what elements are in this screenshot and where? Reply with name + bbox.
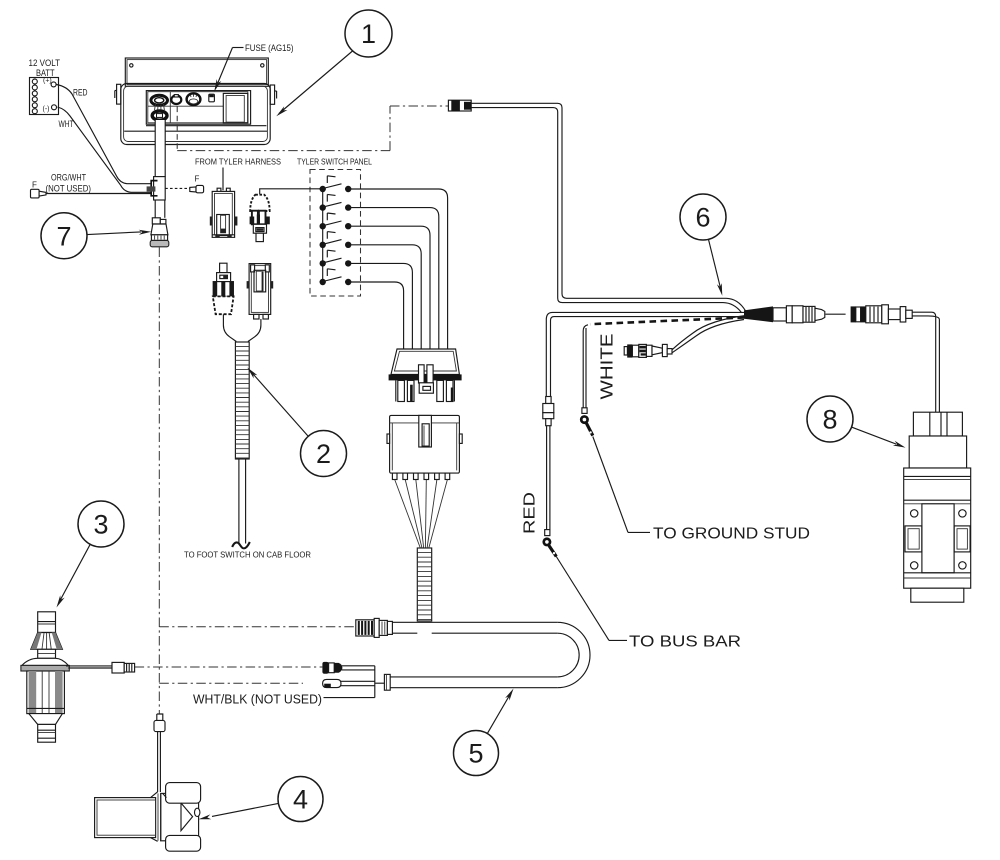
svg-text:8: 8 xyxy=(822,405,837,435)
label TO GROUND STUD with leader xyxy=(593,437,810,543)
wire RED battery positive xyxy=(57,85,153,184)
label FUSE (AG15) with leader xyxy=(214,43,293,92)
callout 1 xyxy=(276,10,392,116)
U cable bottom run xyxy=(390,677,557,688)
svg-text:F: F xyxy=(32,181,37,190)
svg-text:RED: RED xyxy=(73,88,88,98)
callout 8 xyxy=(807,396,906,448)
svg-text:2: 2 xyxy=(316,439,331,469)
valve solenoid assembly (item 8) xyxy=(904,412,971,602)
centerline vertical xyxy=(158,248,160,714)
antenna assembly xyxy=(21,612,69,742)
switch 2 xyxy=(320,194,352,210)
wire from switch 1 to connector xyxy=(348,189,447,350)
tractor drop cable xyxy=(158,732,161,792)
switch 1 xyxy=(320,176,352,192)
wires from connectors C and D to foot switch cable xyxy=(223,314,261,341)
wire from switch 5 to connector xyxy=(348,263,412,349)
console round connector 3 xyxy=(187,93,201,105)
svg-text:4: 4 xyxy=(293,785,308,815)
fuse AG15 on console xyxy=(209,94,215,102)
svg-text:TO GROUND STUD: TO GROUND STUD xyxy=(653,526,810,543)
pigtail wire and connector xyxy=(624,316,746,358)
stack female connector housing xyxy=(387,415,462,473)
callout 4 xyxy=(199,777,324,822)
svg-text:FUSE (AG15): FUSE (AG15) xyxy=(245,43,294,53)
svg-text:(+): (+) xyxy=(43,78,52,85)
trunk cable junction to connector 7 xyxy=(155,200,165,218)
wire from switch 4 to connector xyxy=(348,245,421,350)
label WHT/BLK (NOT USED) with leader xyxy=(193,692,375,707)
connector 7 (round harness connector) xyxy=(150,218,169,247)
switch 6 xyxy=(320,269,352,285)
svg-text:1: 1 xyxy=(361,19,376,49)
junction block on trunk xyxy=(147,177,166,200)
svg-text:3: 3 xyxy=(93,510,108,540)
stack male connector housing xyxy=(389,349,462,380)
wire female connector to valve xyxy=(912,312,939,412)
console back plate xyxy=(125,58,268,86)
wire from harness connector to switch rail xyxy=(260,189,323,195)
svg-text:WHITE: WHITE xyxy=(597,334,617,400)
ribbed cable below stack xyxy=(417,548,431,621)
WHITE eyelet to ground stud xyxy=(580,408,593,436)
svg-text:(-): (-) xyxy=(43,106,50,113)
wire from switch 3 to connector xyxy=(348,226,430,349)
harness convergence bundle xyxy=(744,306,773,322)
svg-text:TO BUS BAR: TO BUS BAR xyxy=(629,634,741,651)
svg-text:7: 7 xyxy=(56,222,71,252)
switch 4 xyxy=(320,232,352,248)
callout 7 xyxy=(41,213,151,259)
callout 2 xyxy=(247,368,346,477)
console main connector with cable xyxy=(151,95,168,120)
wire from remote connector to right harness xyxy=(471,103,745,312)
tractor (top view) xyxy=(95,783,201,852)
switch rail left xyxy=(322,189,324,282)
centerline to WHT/BLK connector xyxy=(159,682,303,684)
inline connector top right (black) xyxy=(448,100,471,111)
switch 3 xyxy=(320,213,352,229)
svg-text:RED: RED xyxy=(522,492,539,534)
wire RED to bus bar xyxy=(543,312,744,529)
U cable top run xyxy=(392,622,557,633)
tyler switch panel dashed box xyxy=(310,170,361,297)
cable break squiggle xyxy=(232,542,250,548)
centerline to U cable connector xyxy=(159,626,355,628)
wire from switch 6 to connector xyxy=(348,282,403,350)
console recessed connector panel xyxy=(146,91,250,125)
harness connector D (bottom right) xyxy=(247,264,274,319)
svg-text:5: 5 xyxy=(468,739,483,769)
switch 5 xyxy=(320,250,352,266)
male round connector (right pair) xyxy=(773,306,846,323)
stack male connector pins xyxy=(396,365,455,402)
trunk cable console to junction xyxy=(155,120,165,177)
label TO BUS BAR with leader xyxy=(556,557,741,651)
svg-text:TO FOOT SWITCH ON CAB FLOOR: TO FOOT SWITCH ON CAB FLOOR xyxy=(184,551,311,560)
svg-text:FROM TYLER HARNESS: FROM TYLER HARNESS xyxy=(195,157,281,167)
cable below ribs to foot switch xyxy=(239,459,246,544)
console body (item 1) xyxy=(115,84,277,145)
harness connector A (top left) xyxy=(210,188,238,237)
U cable bottom end cap xyxy=(384,674,390,690)
centerline antenna wire extension xyxy=(135,666,323,668)
stack female connector pins and fan-out wires xyxy=(392,473,449,548)
connector F right of junction xyxy=(165,175,203,193)
wire from switch 2 to connector xyxy=(348,208,439,350)
WHT/BLK stub wires and connectors xyxy=(322,662,384,698)
svg-text:BATT: BATT xyxy=(36,68,55,78)
ribbed cable to foot switch (item 2 target) xyxy=(235,342,249,459)
U cable bend xyxy=(557,622,590,687)
callout 6 xyxy=(680,194,726,296)
svg-text:12 VOLT: 12 VOLT xyxy=(29,58,61,68)
wire WHITE dashed to ground xyxy=(583,318,744,409)
console round connector 2 xyxy=(171,95,181,104)
antenna wire and connector xyxy=(66,662,135,673)
battery 12V terminal block xyxy=(29,58,61,115)
svg-text:WHT/BLK (NOT USED): WHT/BLK (NOT USED) xyxy=(193,692,322,707)
tractor connector above xyxy=(154,714,165,732)
harness connector B (top right, to switch panel) xyxy=(250,195,270,242)
callout 5 xyxy=(454,689,514,776)
svg-text:F: F xyxy=(195,175,200,184)
svg-text:(NOT USED): (NOT USED) xyxy=(46,184,92,194)
svg-text:WHT: WHT xyxy=(59,119,74,129)
female round connector (right pair) xyxy=(851,305,913,324)
harness connector C (bottom left) xyxy=(213,263,234,314)
wire WHT battery negative xyxy=(58,107,153,192)
U cable left ribbed connector xyxy=(356,618,393,637)
svg-text:TYLER SWITCH PANEL: TYLER SWITCH PANEL xyxy=(297,157,372,167)
svg-text:6: 6 xyxy=(695,203,710,233)
dash-dot boundary console to remote connector xyxy=(176,107,178,151)
connector F orange/white not used xyxy=(31,173,153,198)
svg-text:ORG/WHT: ORG/WHT xyxy=(51,173,86,183)
RED eyelet to bus bar xyxy=(542,530,556,557)
callout 3 xyxy=(57,501,125,608)
